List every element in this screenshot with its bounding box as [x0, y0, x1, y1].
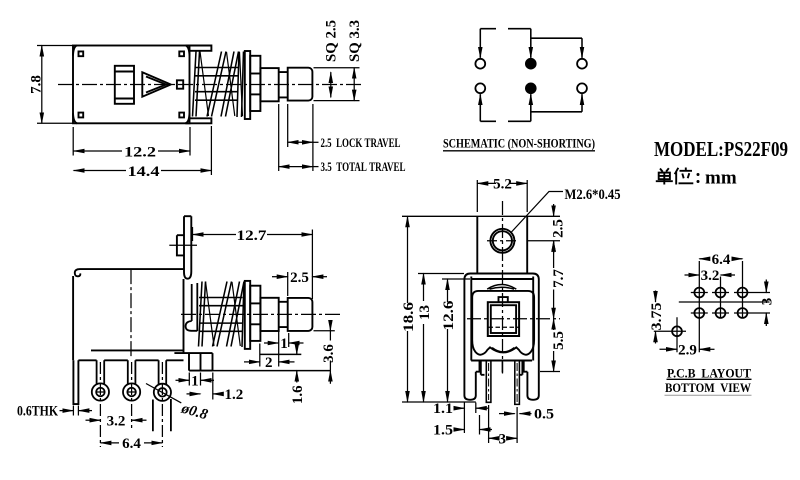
svg-text:1.6: 1.6 [290, 385, 306, 404]
dim 5.5 line [553, 319, 555, 330]
dim 13 extension [418, 273, 464, 275]
pcb hole support [672, 326, 682, 336]
dim 1 leg extension [189, 373, 200, 386]
dim 7.7 line [553, 241, 555, 268]
total travel extension line [278, 104, 280, 171]
svg-text:7.7: 7.7 [551, 269, 567, 288]
dim 2.5 line arrows [272, 276, 288, 278]
svg-text:M2.6*0.45: M2.6*0.45 [565, 187, 621, 203]
svg-text:1.1: 1.1 [433, 401, 453, 417]
pcb hole r1c1 [694, 288, 704, 298]
dim 1 leg arrows [176, 379, 190, 381]
dim 7.8 line [41, 46, 43, 124]
knob side [288, 298, 313, 331]
VIEW D: front view [402, 216, 560, 360]
dim 12.2 extension lines [73, 127, 190, 156]
pcb dim 3.75 arrows [655, 291, 657, 303]
terminal circle top-mid (filled) [526, 59, 536, 69]
dim 5.2 extension lines [477, 180, 527, 212]
svg-text:2.5: 2.5 [290, 270, 309, 286]
terminal circle bottom-mid (filled) [526, 83, 536, 93]
svg-text:2.9: 2.9 [678, 343, 697, 359]
svg-text:mm: mm [705, 168, 737, 189]
vertical centerline view D [502, 201, 504, 374]
leg centerlines [489, 363, 517, 402]
pcb dim 3.2 arrows [685, 274, 700, 276]
body outline side view [73, 269, 184, 360]
dim 12.6 extension [442, 278, 470, 280]
svg-text:SQ 3.3: SQ 3.3 [347, 20, 363, 62]
terminal circle top-left [475, 59, 485, 69]
tab hole centerline tick [169, 244, 197, 246]
pcb column centerlines [677, 261, 743, 352]
mounting bracket front [477, 216, 527, 273]
mounting hole M2.6 [490, 229, 514, 253]
top lens arc [487, 285, 516, 290]
pin 1 [97, 360, 105, 384]
dim 1.1 arrows [454, 407, 465, 409]
svg-text:1.2: 1.2 [225, 387, 244, 403]
tab hole side square [177, 235, 184, 255]
body vertical centerline [130, 269, 132, 358]
pcb row cross ticks [654, 293, 770, 332]
pcb dim 2.9 arrows [660, 348, 678, 350]
svg-text:5.5: 5.5 [551, 331, 567, 350]
branch wire to bottom-right terminal [531, 111, 582, 113]
pin centerlines [100, 362, 162, 447]
pin 3 [159, 360, 167, 384]
hidden line in button [489, 326, 519, 328]
branch wire to top-right terminal [531, 37, 582, 39]
small inner steps [481, 361, 523, 375]
dim 1.5 extension [479, 415, 481, 435]
dim 14.4 line [74, 170, 127, 172]
right bracket leg [524, 355, 539, 400]
bracket top line with extension [402, 215, 560, 217]
pin hole cross ticks [96, 391, 137, 393]
housing blob [472, 291, 534, 355]
VIEW C: side view [73, 216, 330, 404]
hole center extension right [527, 240, 560, 242]
wire to bottom-left terminal [479, 94, 481, 121]
plunger narrow ring SQ2.5 [279, 72, 288, 97]
inner window rectangle [115, 66, 134, 104]
button square inner [491, 305, 516, 333]
svg-text:2.5: 2.5 [551, 219, 567, 238]
dim 3.6 extension [314, 330, 335, 332]
pcb hole r1c3 [738, 288, 748, 298]
left long pin leg [486, 361, 491, 403]
dim 3.2 arrows [86, 419, 101, 421]
dim 1.2 extension [212, 373, 214, 400]
svg-text:7.8: 7.8 [28, 75, 44, 94]
wire to bottom-mid terminal [530, 94, 532, 121]
SQ2.5 dim line [330, 72, 332, 97]
hex bushing block [250, 56, 260, 111]
dim 12.7 line [193, 234, 237, 236]
svg-text:3.2: 3.2 [107, 413, 126, 429]
unit label: colon [697, 173, 700, 183]
svg-text:0.6THK: 0.6THK [17, 404, 58, 420]
spring back strands [206, 282, 241, 347]
small latch square [177, 80, 183, 88]
svg-text:1: 1 [280, 336, 288, 352]
mounting tab side view [184, 216, 191, 279]
dim 1.1 extension [464, 402, 475, 433]
body corner notch TR [179, 46, 189, 57]
dim 2.5 right arrows [553, 204, 555, 216]
bottom reference extension line [402, 401, 476, 403]
terminal circle bottom-right [577, 83, 587, 93]
pcb hole r2c1 [694, 308, 704, 318]
SCHEMATIC DIAGRAM [475, 59, 586, 93]
svg-text:ø0.8: ø0.8 [179, 400, 210, 423]
dim 14.4 extension line right [210, 126, 212, 175]
body bottom extension right [540, 371, 560, 373]
pin3 support leg [153, 399, 171, 431]
pcb hole r1c2 [716, 288, 726, 298]
bottom slider bar wire [480, 120, 531, 122]
body bottom line [471, 360, 532, 362]
terminal circle bottom-left [475, 83, 485, 93]
svg-text:13: 13 [417, 305, 433, 320]
spring side view coil strands [199, 282, 245, 348]
svg-text:3.2: 3.2 [701, 268, 720, 284]
svg-text:SQ 2.5: SQ 2.5 [324, 20, 340, 62]
svg-text:1: 1 [191, 373, 199, 389]
inner cover edges [471, 277, 533, 361]
PCB LAYOUT VIEW [672, 288, 747, 337]
dim 2 arrows [244, 361, 260, 363]
square knob SQ3.3 [288, 68, 313, 101]
svg-text:6.4: 6.4 [712, 252, 731, 268]
spring back strands [200, 52, 243, 117]
svg-text:6.4: 6.4 [122, 436, 141, 452]
svg-text:5.2: 5.2 [493, 176, 512, 192]
body corner notch BR [179, 113, 189, 124]
leader line for pin hole dia [146, 384, 181, 403]
rear leg bottom line [260, 353, 301, 355]
svg-text:3: 3 [499, 431, 507, 447]
dim 3 extension [489, 405, 517, 443]
bottom rail extension [186, 118, 212, 123]
seating base line [213, 370, 331, 372]
dim 1.5 arrows [454, 429, 465, 431]
right long pin leg [515, 361, 520, 405]
svg-text:SCHEMATIC (NON-SHORTING): SCHEMATIC (NON-SHORTING) [443, 136, 595, 151]
SQ3.3 dim line [353, 68, 355, 101]
leader M2.6*0.45 [511, 192, 563, 233]
dim 3.5 total travel line [279, 166, 313, 168]
button nub [499, 297, 508, 302]
SQ3.3 extension lines [314, 68, 360, 101]
dim 2 extension [260, 331, 279, 367]
unit label: glyph dan [656, 168, 673, 184]
lock travel extension lines [288, 104, 313, 171]
center short leg [501, 361, 503, 373]
spring washer plate [245, 51, 250, 119]
svg-text:3.75: 3.75 [649, 303, 665, 331]
rear feet legs [174, 353, 212, 371]
pcb dim 6.4 line [699, 258, 710, 260]
svg-text:3.5 TOTAL TRAVEL: 3.5 TOTAL TRAVEL [321, 159, 406, 174]
front frame thin leg 0.6THK [73, 360, 78, 404]
svg-text:2.5 LOCK TRAVEL: 2.5 LOCK TRAVEL [321, 135, 401, 150]
dim 2.5 extension line [287, 272, 289, 296]
shaft lines behind spring [199, 298, 243, 332]
pcb hole r2c3 [738, 308, 748, 318]
plunger wide section side [260, 298, 278, 331]
bushing block side [250, 286, 260, 341]
svg-text:12.7: 12.7 [237, 228, 268, 244]
washer plate side [245, 281, 250, 349]
svg-text:MODEL:PS22F09: MODEL:PS22F09 [654, 137, 788, 161]
switch body top view [73, 46, 190, 124]
dim 3 line [489, 437, 496, 439]
horizontal centerline view D [467, 318, 560, 320]
dim 0.5 arrows [499, 413, 515, 415]
svg-text:0.5: 0.5 [534, 407, 554, 423]
terminal circle top-right [577, 59, 587, 69]
svg-text:BOTTOM VIEW: BOTTOM VIEW [665, 380, 751, 395]
inner top line [471, 278, 533, 280]
body bottom outer line with pin gaps [78, 359, 183, 361]
housing inner bottom arc [492, 348, 515, 352]
body bottom inner line [91, 349, 184, 351]
dim 12.6 line [447, 279, 449, 302]
dim 6.4 line [100, 442, 119, 444]
body right edge [183, 279, 185, 353]
dim 1 shaft extension [288, 333, 290, 347]
dim 13 line [423, 274, 425, 302]
plunger narrow ring side [279, 302, 288, 327]
shaft lines behind spring [195, 68, 238, 101]
svg-text:2: 2 [265, 355, 273, 371]
centerline view A [58, 84, 362, 86]
svg-text:12.6: 12.6 [441, 300, 457, 331]
pcb hole r2c2 [716, 308, 726, 318]
svg-text:3.6: 3.6 [321, 344, 337, 363]
spring top view: coil strands [193, 52, 244, 118]
button square outer [488, 302, 519, 336]
svg-text:18.6: 18.6 [401, 301, 417, 332]
plunger wide section [260, 68, 278, 101]
svg-text:14.4: 14.4 [128, 164, 161, 180]
body corner notch TL [73, 46, 83, 57]
dim 12.2 line [74, 150, 123, 152]
body corner notch BL [73, 113, 83, 124]
plunger rod and foot [186, 283, 198, 331]
dim 7.8 extension lines [37, 46, 73, 124]
svg-text:P.C.B LAYOUT: P.C.B LAYOUT [667, 366, 751, 381]
body front outline [464, 274, 538, 356]
top rail extension [186, 46, 212, 51]
pcb dim 3 arrows [765, 280, 767, 293]
pin 2 [128, 360, 136, 384]
top slider bar wire [480, 28, 531, 30]
dim 2.5 lock travel line [288, 141, 313, 143]
dim 18.6 line [407, 216, 409, 303]
left bracket leg [464, 355, 479, 400]
dim 1.6 arrows [296, 343, 298, 355]
wire to top-mid terminal [530, 29, 532, 58]
dim 12.7 extension lines [193, 227, 313, 299]
unit label: glyph wei [675, 168, 694, 185]
pcb centerline long [679, 301, 770, 303]
svg-text:12.2: 12.2 [124, 145, 156, 161]
dim 0.6THK arrows [60, 410, 74, 412]
dim 3.6 arrows [329, 322, 331, 331]
svg-text:3: 3 [760, 298, 776, 306]
dim 1 shaft arrows [264, 342, 279, 344]
pointer triangle [142, 72, 171, 96]
dim 1.2 arrows [187, 393, 201, 395]
dim 5.2 line [477, 182, 496, 184]
centerline view C horizontal [181, 313, 340, 315]
wire to top-left terminal [479, 29, 481, 58]
svg-text:1.5: 1.5 [433, 423, 453, 439]
hole horizontal centerline [487, 240, 518, 242]
